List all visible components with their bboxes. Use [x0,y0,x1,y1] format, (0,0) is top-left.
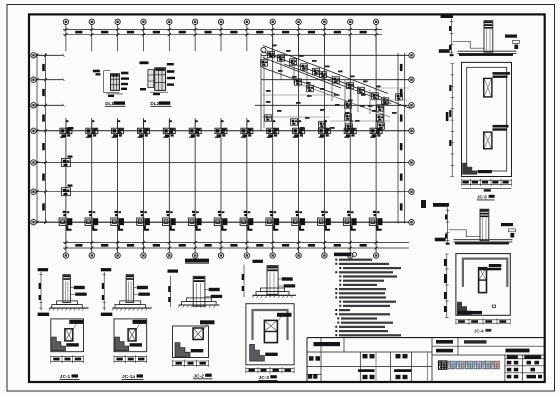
grid bubble right axis row 1 [409,53,414,58]
detail JC-1 label [60,374,80,380]
grid line column 12 [349,36,351,253]
grid bubble left axis G [31,53,36,58]
grid line column 8 [246,118,248,253]
detail JC-1a foundation [101,268,152,363]
detail JC-3 foundation [242,260,296,374]
footing column 9 row D [267,120,279,137]
notes text lines [335,259,401,337]
footing diagonal bay 8 [347,82,354,88]
grid line row 1 [36,54,409,56]
footing column 13 row A [369,211,382,231]
footing diagonal bay 3 [290,59,297,65]
detail JC-1a label [122,374,144,380]
title stamp text 基础平面布置图 [439,361,500,369]
footing diagonal bay 15 [345,102,352,108]
footing diagonal bay 18 [377,115,384,121]
footing column 7 row A [214,211,227,231]
bottom dimension band [63,241,409,249]
top axis dimension band [63,25,382,52]
bottom dimension text marks [75,244,367,247]
grid line column 2 [91,118,93,253]
diagonal region left edge line [260,53,262,131]
section detail 1-1 top right [439,15,520,57]
grid bubble bottom axis 7 [218,253,223,258]
footing column 2 row A [85,211,98,231]
footing diagonal bay 22 [346,124,353,130]
footing column 1 row E [61,159,70,167]
title block frame [307,338,545,382]
diagonal grid line 2 [262,52,411,109]
footing column 3 row A [111,211,124,231]
section title text 基础详图 [185,259,209,264]
notes title 基础说明 [334,252,357,256]
grid bubble bottom axis 10 [296,253,301,258]
detail DL1 section [93,70,129,97]
diagonal start bubble [261,47,266,52]
grid bubble left axis B [31,189,36,194]
diagonal grid line 3 [263,58,341,89]
footing column 12 row A [343,211,356,231]
right axis dimension lines [397,53,405,224]
footing diagonal bay 6 [320,71,327,77]
footing labels column 1 [68,127,74,187]
footing diagonal bay 13 [307,85,314,91]
grid bubble left axis C [31,160,36,165]
footing diagonal bay 2 [278,55,285,61]
detail DL1 label [105,101,126,106]
footing column 5 row A [163,211,176,231]
footing column 10 row A [292,211,305,231]
footing diagonal bay 9 [358,87,365,93]
diagonal region dimension text marks [266,45,397,129]
title block drawing number table [505,355,545,382]
right axis dimension text marks [400,64,403,211]
diagonal grid line 4 [284,64,391,104]
grid bubble top axis 12 [348,19,353,24]
diagonal grid line 1 [263,46,388,94]
left wall edge ticks [63,54,65,107]
footing column 1 row F [61,188,70,196]
grid bubble bottom axis 3 [115,253,120,258]
footing column 2 row D [86,120,98,137]
footing diagonal bay 19 [265,115,272,121]
grid bubble top axis 6 [192,19,197,24]
footing column 11 row D [318,120,330,137]
grid bubble right axis row 5 [409,160,414,165]
grid line row 6 [36,191,409,193]
grid bubble bottom axis 4 [141,253,146,258]
footing diagonal bay 12 [295,79,302,85]
footing column 8 row D [241,120,253,137]
grid bubble top axis 2 [89,19,94,24]
grid line column 9 [272,36,274,253]
footing diagonal bay 1 [268,51,275,57]
title block project cells [432,338,545,355]
grid line column 11 [323,36,325,253]
left axis dimension text marks [42,64,45,211]
grid line row 3 [36,104,409,106]
grid bubble top axis 4 [141,19,146,24]
diagonal grid line 6 [300,84,390,117]
footing column 7 row D [215,120,227,137]
grid line column 4 [142,118,144,253]
footing diagonal bay 11 [382,98,389,104]
svg-text:DL1: DL1 [105,101,114,106]
grid bubble top axis 13 [373,19,378,24]
footing column 10 row D [293,120,305,137]
footing diagonal bay 5 [313,68,320,74]
footing column 8 row A [240,211,253,231]
grid bubble left axis E [31,103,36,108]
footing diagonal bay 14 [261,60,268,66]
detail JC-2 foundation [168,270,223,367]
footing diagonal bay 24 [396,94,403,100]
grid bubble right axis row 2 [409,77,414,82]
footing column 9 row A [266,211,279,231]
detail JC-1 foundation [38,268,89,363]
grid line column 5 [168,118,170,253]
grid bubble bottom axis 8 [244,253,249,258]
grid line row 5 [36,162,409,164]
grid line column 6 [194,118,196,253]
footing diagonal bay 10 [372,93,379,99]
detail DL2 label [150,101,171,106]
grid line column 3 [117,118,119,253]
grid bubble bottom axis 6 [192,253,197,258]
footing column 6 row A [188,211,201,231]
grid line column 7 [220,118,222,253]
grid bubble top axis 9 [270,19,275,24]
footing column 3 row D [112,120,124,137]
grid line column 10 [298,36,300,253]
grid bubble bottom axis 1 [63,253,68,258]
footing column 12 row D [344,120,356,137]
diagonal region connector lines [262,88,409,121]
footing diagonal bay 17 [377,105,384,111]
footing diagonal bay 20 [291,119,298,125]
footing column 1 row D [60,120,72,137]
grid bubble right axis row 7 [409,220,414,225]
grid line row 7 [36,221,409,223]
grid bubble right axis row 4 [409,128,414,133]
svg-text:JC-5: JC-5 [477,195,487,200]
grid bubble left axis A [31,220,36,225]
grid bubble bottom axis 9 [270,253,275,258]
footing column 13 row D [370,120,382,137]
grid bubble bottom axis 2 [89,253,94,258]
grid bubble left axis F [31,77,36,82]
grid bubble right axis row 6 [409,189,414,194]
footing column 6 row D [189,120,201,137]
grid bubble left axis D [31,128,36,133]
grid line column 13 [375,36,377,253]
footing column 5 row D [163,120,175,137]
detail JC-4 pile cap plan [444,254,510,325]
grid line row 2 [36,79,409,81]
detail JC-5 raft plan [446,62,512,191]
svg-text:JC-4: JC-4 [474,328,484,333]
section detail 2-2 middle right [435,203,516,245]
detail JC-2 label [193,373,212,379]
label 3-3 left of section [421,200,448,208]
grid bubble top axis 7 [218,19,223,24]
grid bubble bottom axis 13 [373,253,378,258]
grid bubble right axis row 3 [409,103,414,108]
title block staff cell text [308,342,412,379]
detail DL2 section [140,61,176,95]
footing diagonal bay 23 [378,123,385,129]
footing diagonal bay 7 [333,77,340,83]
top axis dimension text marks [75,31,367,34]
grid bubble bottom axis 11 [322,253,327,258]
diagonal grid line 5 [262,68,340,96]
svg-text:DL2: DL2 [150,101,159,106]
grid line column 1 [65,118,67,253]
detail JC-3 label [258,375,277,381]
grid bubble top axis 8 [244,19,249,24]
grid bubble bottom axis 12 [348,253,353,258]
detail JC-4 label [474,328,491,333]
footing column 11 row A [318,211,331,231]
footing column 4 row A [137,211,150,231]
footing column 4 row D [138,120,150,137]
grid bubble top axis 1 [63,19,68,24]
grid bubble top axis 10 [296,19,301,24]
left axis dimension lines [36,53,47,224]
label JC-5 [477,195,495,200]
grid bubble top axis 11 [322,19,327,24]
footing diagonal bay 4 [301,64,308,70]
grid bubble bottom axis 5 [167,253,172,258]
diagonal region stub lines [264,55,384,130]
footing diagonal bay 21 [319,121,326,127]
footing diagonal bay 16 [345,114,352,120]
grid bubble top axis 3 [115,19,120,24]
footing column 1 row A [59,211,72,231]
grid line row 4 [36,130,409,132]
grid bubble top axis 5 [167,19,172,24]
